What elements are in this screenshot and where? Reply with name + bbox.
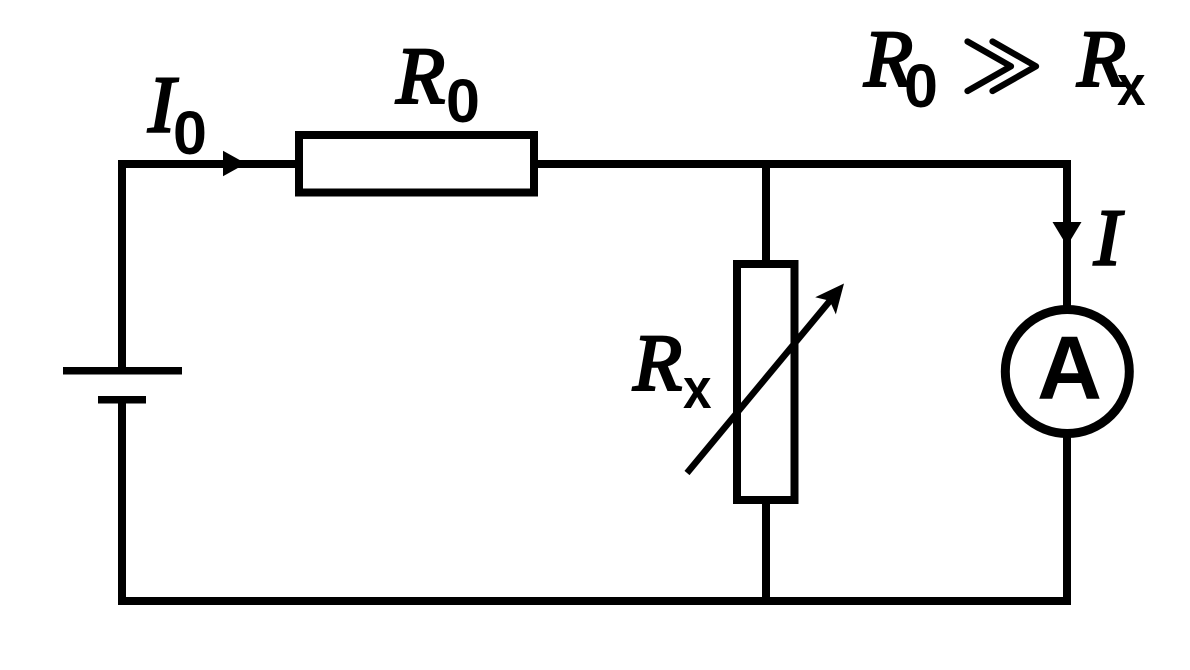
annotation R0 much greater than Rx: [863, 16, 1145, 120]
resistor R0: [299, 135, 534, 193]
svg-text:x: x: [1117, 55, 1146, 118]
svg-text:A: A: [1037, 319, 1102, 419]
wire: branch vertical below Rx to bottom rail: [762, 498, 770, 601]
wire: right vertical from ammeter to bottom rail: [1063, 425, 1071, 601]
label I: [1093, 195, 1124, 283]
variable resistor Rx: [687, 264, 844, 500]
battery: [63, 371, 182, 400]
label R0: [395, 33, 480, 135]
svg-text:0: 0: [904, 52, 938, 120]
ammeter A: [1005, 310, 1129, 434]
wire: branch vertical to Rx (top): [762, 164, 770, 266]
wire: bottom rail: [118, 597, 1071, 605]
current arrow I0 on top wire: [223, 151, 246, 176]
svg-text:0: 0: [446, 67, 480, 135]
label I0: [147, 62, 207, 167]
current arrow I on right wire: [1053, 222, 1082, 246]
wire: top rail from battery up and across to right corner: [122, 164, 1067, 370]
svg-text:0: 0: [173, 99, 207, 167]
svg-text:R: R: [632, 320, 682, 408]
svg-text:I: I: [1093, 195, 1124, 283]
svg-text:R: R: [395, 33, 445, 121]
svg-text:x: x: [683, 358, 712, 421]
wire: left lower vertical from battery to bottom rail: [118, 400, 126, 601]
label Rx: [632, 320, 711, 421]
